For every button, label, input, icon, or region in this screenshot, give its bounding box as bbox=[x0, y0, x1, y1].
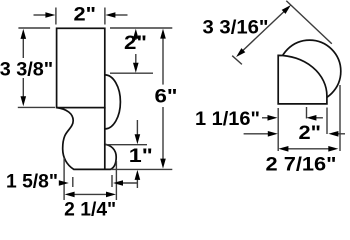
svg-text:2": 2" bbox=[74, 5, 97, 26]
svg-text:1": 1" bbox=[129, 146, 153, 167]
svg-text:2": 2" bbox=[299, 123, 322, 144]
svg-text:1 5/8": 1 5/8" bbox=[6, 171, 58, 192]
svg-text:2 1/4": 2 1/4" bbox=[64, 200, 116, 216]
svg-text:3 3/8": 3 3/8" bbox=[0, 60, 53, 81]
svg-text:3 3/16": 3 3/16" bbox=[203, 17, 269, 38]
svg-text:2": 2" bbox=[124, 33, 147, 54]
svg-text:6": 6" bbox=[155, 86, 178, 107]
svg-text:2 7/16": 2 7/16" bbox=[266, 155, 337, 176]
svg-text:1 1/16": 1 1/16" bbox=[195, 109, 260, 130]
